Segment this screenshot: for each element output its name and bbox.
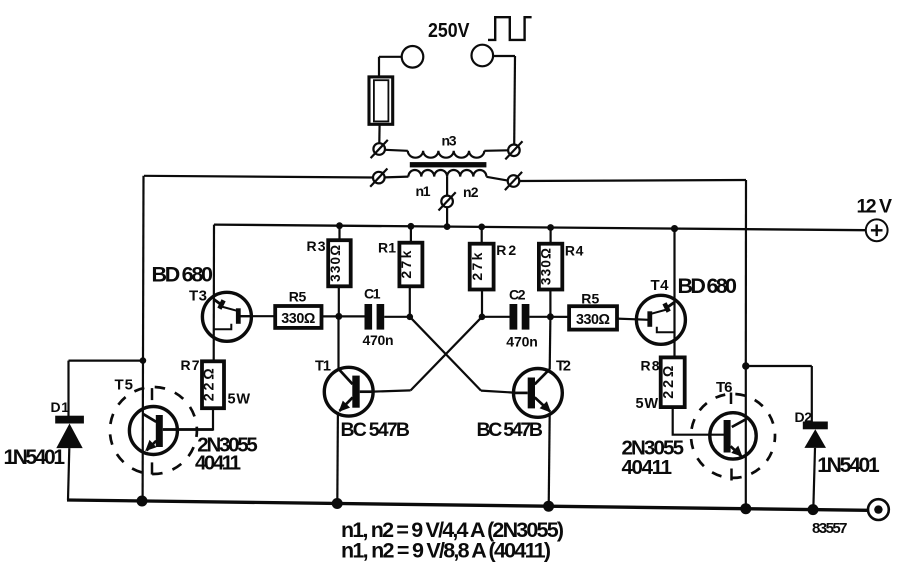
svg-text:BD 680: BD 680 [678, 274, 738, 298]
svg-text:12 V: 12 V [857, 196, 893, 218]
svg-text:22Ω: 22Ω [661, 366, 677, 399]
svg-text:T1: T1 [315, 359, 331, 375]
svg-text:T5: T5 [115, 376, 134, 393]
svg-text:1N5401: 1N5401 [4, 446, 66, 469]
svg-text:27k: 27k [398, 250, 414, 278]
svg-text:D1: D1 [51, 399, 70, 415]
svg-text:330Ω: 330Ω [281, 311, 315, 327]
svg-text:R2: R2 [496, 242, 516, 258]
svg-text:T2: T2 [556, 358, 571, 374]
svg-text:250V: 250V [428, 19, 470, 42]
svg-text:27k: 27k [469, 252, 485, 280]
svg-text:BD 680: BD 680 [152, 262, 214, 286]
svg-text:330Ω: 330Ω [539, 248, 554, 285]
svg-text:BC 547B: BC 547B [341, 419, 411, 441]
svg-text:T3: T3 [189, 287, 207, 304]
svg-text:40411: 40411 [195, 452, 241, 475]
svg-text:330Ω: 330Ω [328, 245, 343, 282]
svg-text:BC 547B: BC 547B [477, 419, 544, 441]
svg-text:R4: R4 [565, 243, 584, 259]
svg-text:R8: R8 [641, 358, 660, 374]
svg-text:40411: 40411 [622, 456, 673, 479]
svg-text:5 W: 5 W [636, 396, 659, 412]
svg-text:T4: T4 [651, 277, 670, 294]
svg-text:R3: R3 [307, 238, 326, 254]
svg-text:330Ω: 330Ω [576, 312, 610, 328]
svg-text:22Ω: 22Ω [201, 368, 217, 401]
svg-text:470n: 470n [363, 332, 394, 348]
svg-text:n2: n2 [463, 184, 479, 200]
svg-text:n1, n2 = 9 V/8,8 A (40411): n1, n2 = 9 V/8,8 A (40411) [341, 539, 551, 563]
svg-text:1N5401: 1N5401 [817, 454, 880, 477]
svg-text:R5: R5 [581, 290, 599, 306]
svg-text:C2: C2 [509, 286, 526, 302]
svg-text:n1: n1 [416, 183, 431, 199]
svg-text:R7: R7 [181, 357, 200, 373]
svg-text:5 W: 5 W [228, 392, 251, 408]
svg-text:C1: C1 [364, 285, 381, 301]
svg-text:R1: R1 [378, 240, 396, 256]
svg-text:R5: R5 [289, 288, 307, 304]
svg-text:n3: n3 [442, 133, 457, 149]
svg-text:470n: 470n [506, 334, 538, 350]
svg-text:83557: 83557 [812, 520, 848, 537]
